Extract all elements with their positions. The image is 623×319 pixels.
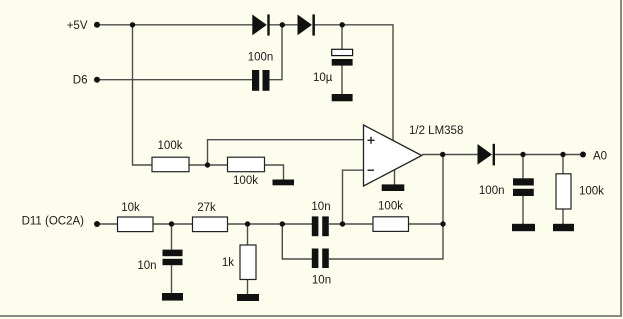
svg-text:100n: 100n (479, 185, 505, 197)
svg-text:+5V: +5V (67, 20, 88, 32)
svg-text:1k: 1k (222, 257, 234, 269)
svg-text:10n: 10n (311, 201, 330, 213)
svg-text:10k: 10k (121, 202, 140, 214)
svg-text:D6: D6 (73, 75, 88, 87)
svg-text:10n: 10n (137, 260, 156, 272)
svg-text:100n: 100n (248, 52, 274, 64)
svg-text:100k: 100k (233, 175, 258, 187)
svg-text:27k: 27k (197, 202, 216, 214)
svg-text:100k: 100k (579, 186, 604, 198)
svg-text:D11 (OC2A): D11 (OC2A) (22, 215, 85, 227)
svg-text:10n: 10n (312, 275, 331, 287)
svg-text:A0: A0 (593, 150, 607, 162)
svg-text:100k: 100k (378, 201, 403, 213)
svg-text:1/2 LM358: 1/2 LM358 (409, 125, 463, 137)
svg-text:100k: 100k (158, 140, 183, 152)
svg-text:10µ: 10µ (313, 72, 333, 84)
